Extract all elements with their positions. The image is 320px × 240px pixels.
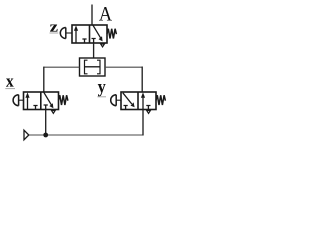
U1 shuttle rod (85, 66, 101, 68)
wire: output line to A (91, 5, 93, 26)
wire: x-valve output to AND left input (44, 66, 80, 68)
valve V2 left-box flow arrow (25, 92, 29, 109)
label z underline (50, 32, 59, 34)
valve V2 return spring (59, 95, 68, 105)
valve V2 right-box exhaust diagonal arrow (44, 92, 54, 108)
label y (98, 84, 106, 96)
valve V1 (z) body boxes (72, 25, 107, 43)
valve V2 push button actuator (x) (13, 95, 23, 106)
pressure source triangle (24, 130, 29, 140)
wire: y-valve output to AND right input (105, 66, 142, 68)
valve V3 left-box exhaust diagonal arrow (123, 93, 135, 108)
valve V3 exhaust triangle (147, 111, 151, 114)
valve V1 exhaust triangle (101, 44, 105, 47)
valve V3 left-box blocked port T (124, 106, 128, 110)
valve V3 right-box flow arrow (141, 92, 145, 109)
label z (50, 25, 58, 32)
valve V2 right-box blocked port T (44, 105, 48, 110)
valve V2 left-box blocked port T (33, 106, 37, 110)
valve V1 return spring (107, 29, 116, 39)
valve V3 push button actuator (y) (111, 95, 121, 106)
label x (6, 79, 14, 87)
wire: supply bus (29, 134, 143, 136)
valve V1 right-box exhaust diagonal arrow (93, 25, 103, 41)
valve V1 left-box blocked port T (82, 39, 86, 43)
valve V2 exhaust triangle (52, 111, 56, 114)
wire: x-valve supply drop (45, 110, 47, 136)
valve V1 right-box blocked port T (92, 39, 96, 44)
wire: V1 supply from AND output (93, 43, 95, 58)
valve V2 (x) body boxes (24, 92, 59, 110)
valve V1 left-box flow arrow (74, 25, 78, 43)
valve V3 right-box blocked port T (146, 106, 150, 110)
valve V3 (y) body boxes (121, 92, 156, 110)
U1 shuttle left plate (85, 60, 88, 74)
node A label (99, 7, 112, 21)
valve V1 push button actuator (z) (60, 28, 72, 39)
valve V3 return spring (156, 95, 165, 105)
label y underline (97, 96, 106, 98)
junction dot (43, 133, 48, 138)
two-pressure valve U1 (AND) body (80, 58, 106, 76)
wire: y-valve supply drop (142, 110, 144, 136)
label x underline (5, 88, 15, 90)
U1 shuttle right plate (97, 60, 100, 74)
